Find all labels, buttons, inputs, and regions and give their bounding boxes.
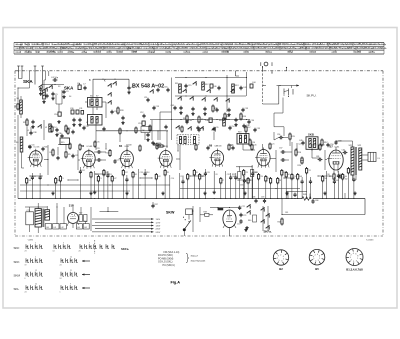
svg-text:C16: C16 xyxy=(164,87,167,89)
svg-text:~220V: ~220V xyxy=(27,239,34,241)
capacitor C66 xyxy=(311,199,318,204)
svg-text:C36: C36 xyxy=(58,133,61,135)
svg-text:R7: R7 xyxy=(227,116,229,118)
svg-text:7: 7 xyxy=(277,258,278,260)
mains plug dot xyxy=(183,220,191,236)
tube base B2 xyxy=(273,250,288,271)
wire xyxy=(160,111,172,113)
wire speaker xyxy=(345,175,356,181)
svg-text:C54: C54 xyxy=(251,120,254,122)
capacitor C41 xyxy=(217,86,220,90)
wire top xyxy=(93,79,129,80)
svg-text:SKM: SKM xyxy=(14,273,21,277)
label S3 xyxy=(58,86,60,88)
svg-text:110V: 110V xyxy=(156,219,161,221)
switch row 2 xyxy=(175,125,215,131)
coil S9 xyxy=(16,137,23,152)
wire xyxy=(243,144,263,150)
svg-text:UCH81: UCH81 xyxy=(87,146,93,148)
svg-text:C58: C58 xyxy=(252,197,255,199)
tube base B1 3 4 6 7 8 xyxy=(346,249,363,272)
svg-text:30Ω,ω7: 30Ω,ω7 xyxy=(191,255,199,257)
svg-text:C57: C57 xyxy=(279,148,282,150)
vertical feed xyxy=(246,72,248,96)
wire xyxy=(44,145,49,175)
wire xyxy=(85,102,106,118)
capacitor C2 xyxy=(43,94,49,98)
box oscillator xyxy=(141,127,150,133)
wire xyxy=(285,142,292,175)
svg-text:R45: R45 xyxy=(230,145,233,147)
wire rectifier top xyxy=(210,207,240,208)
wire grid output xyxy=(325,150,327,170)
svg-text:9: 9 xyxy=(70,284,71,286)
capacitor C1 xyxy=(127,79,134,94)
svg-text:R16: R16 xyxy=(298,152,301,154)
resistor R1 xyxy=(15,103,20,111)
svg-text:C38: C38 xyxy=(85,126,88,128)
coil L44 xyxy=(76,224,82,229)
switch detail row SKM xyxy=(14,270,91,280)
svg-text:C38: C38 xyxy=(33,132,36,134)
capacitor left of B4 xyxy=(113,159,119,163)
mains voltage label xyxy=(27,239,34,241)
label SK.P.U. xyxy=(307,94,317,98)
wire xyxy=(58,145,66,156)
svg-text:R6: R6 xyxy=(33,176,35,178)
trimmer row C30 xyxy=(70,108,84,114)
vertical feed xyxy=(226,75,228,112)
component field below tubes xyxy=(26,167,357,199)
label 31B xyxy=(69,203,74,207)
svg-text:C21: C21 xyxy=(349,170,352,172)
capacitor C3 xyxy=(62,90,68,94)
label K2 xyxy=(147,85,149,88)
svg-text:Fig.A: Fig.A xyxy=(171,280,181,284)
label S4 xyxy=(69,96,71,98)
switch row xyxy=(177,96,229,102)
svg-text:C35: C35 xyxy=(215,127,218,129)
resistor R11 xyxy=(157,143,165,147)
ground xyxy=(245,226,248,229)
svg-text:4: 4 xyxy=(317,254,318,256)
svg-text:7: 7 xyxy=(89,243,90,245)
tube B7 UABC80 xyxy=(209,149,223,168)
svg-text:C43: C43 xyxy=(243,87,246,89)
svg-text:C44: C44 xyxy=(252,82,255,84)
svg-text:3: 3 xyxy=(356,260,357,262)
resistor R47 xyxy=(79,213,82,222)
output transformer S21 S22 xyxy=(349,145,362,175)
mains transformer S26 primary xyxy=(35,209,44,227)
capacitor C52 xyxy=(229,145,235,150)
svg-text:1: 1 xyxy=(60,292,61,294)
schematic frame bottom xyxy=(15,235,383,237)
capacitor C7 xyxy=(83,84,87,91)
svg-text:C59: C59 xyxy=(261,197,264,199)
svg-text:R28: R28 xyxy=(329,176,332,178)
switch contact xyxy=(149,89,153,93)
svg-text:24: 24 xyxy=(60,278,62,280)
coil unit S6 S7 xyxy=(88,96,103,108)
svg-text:C13: C13 xyxy=(156,106,159,108)
aerial terminal A3 xyxy=(34,66,37,85)
capacitor C5 xyxy=(51,92,58,100)
svg-text:2: 2 xyxy=(280,254,281,256)
svg-text:19: 19 xyxy=(25,265,27,267)
svg-text:4: 4 xyxy=(35,257,36,259)
capacitor C49 xyxy=(299,140,305,145)
tube B9 UL84 output xyxy=(327,140,343,172)
coil L41 xyxy=(53,224,59,229)
wire drops xyxy=(310,193,345,199)
label B4 xyxy=(119,145,129,148)
svg-text:C56: C56 xyxy=(31,145,34,147)
schematic frame right xyxy=(382,71,384,236)
svg-text:R48: R48 xyxy=(299,176,302,178)
wire xyxy=(96,130,168,148)
resistor R28 xyxy=(329,173,345,181)
resistor R10 xyxy=(240,113,246,121)
wire AVC line 2 xyxy=(20,190,130,192)
capacitor C20 xyxy=(56,156,59,160)
label SKFa 2 xyxy=(121,247,129,251)
svg-text:R48: R48 xyxy=(128,145,131,147)
caps between tubes xyxy=(96,148,101,162)
capacitor C4 xyxy=(51,77,59,82)
wire B+ seg xyxy=(95,120,97,150)
svg-text:24: 24 xyxy=(25,292,27,294)
capacitor C71 xyxy=(26,207,34,232)
wire xyxy=(291,86,293,89)
svg-text:C64: C64 xyxy=(254,172,257,174)
svg-text:R4: R4 xyxy=(287,174,289,176)
junction row xyxy=(180,119,229,120)
node B xyxy=(89,79,93,98)
coil L42 xyxy=(60,224,66,229)
resistor left of B4 xyxy=(106,149,112,157)
svg-text:C46: C46 xyxy=(253,145,256,147)
svg-text:C15: C15 xyxy=(188,85,191,87)
svg-text:L44: L44 xyxy=(77,227,80,229)
svg-text:C54: C54 xyxy=(231,126,234,128)
svg-text:C61: C61 xyxy=(316,156,319,158)
svg-text:5: 5 xyxy=(353,261,354,263)
wire links upper xyxy=(44,131,246,142)
svg-text:9: 9 xyxy=(350,257,351,259)
IF can box xyxy=(60,138,70,145)
svg-text:C53: C53 xyxy=(245,108,248,110)
header table rules xyxy=(14,42,384,54)
svg-text:4: 4 xyxy=(283,256,284,258)
wire corner at frame xyxy=(236,71,240,76)
wire xyxy=(56,90,62,112)
switch SKA contact b xyxy=(107,81,116,87)
svg-text:C25: C25 xyxy=(245,172,248,174)
wire AF line xyxy=(180,188,300,189)
svg-text:S19: S19 xyxy=(238,132,241,134)
wire bottom left links xyxy=(56,203,91,231)
capacitor C43 xyxy=(239,86,246,90)
svg-text:C157: C157 xyxy=(237,224,241,226)
svg-text:24: 24 xyxy=(60,265,62,267)
schematic frame left xyxy=(14,71,16,236)
svg-text:S15: S15 xyxy=(61,142,64,144)
divider xyxy=(94,240,96,254)
tube base B5 xyxy=(309,249,325,270)
capacitor C33 xyxy=(72,118,75,127)
svg-text:C21: C21 xyxy=(271,144,274,146)
gramophone terminal xyxy=(261,62,272,71)
svg-text:3: 3 xyxy=(63,243,64,245)
svg-text:C31: C31 xyxy=(227,174,230,176)
svg-text:C66: C66 xyxy=(315,200,318,202)
capacitor C72 xyxy=(238,206,245,210)
voltage selector lines xyxy=(92,218,161,234)
wire xyxy=(192,206,193,232)
svg-text:R24: R24 xyxy=(321,145,324,147)
switch contact xyxy=(37,124,41,128)
switch contact xyxy=(43,85,52,92)
capacitor C11 xyxy=(144,97,150,102)
svg-text:1: 1 xyxy=(357,258,358,260)
coil L2 xyxy=(45,124,51,132)
svg-text:SKF: SKF xyxy=(14,246,20,250)
svg-text:C64: C64 xyxy=(344,176,347,178)
switch SKFa contacts xyxy=(260,206,269,231)
switch SKA contact a xyxy=(38,84,47,88)
mid-band components xyxy=(28,141,324,152)
svg-text:C11: C11 xyxy=(144,97,147,99)
label SKFa xyxy=(264,229,272,233)
wire xyxy=(263,86,279,105)
wire xyxy=(47,84,64,85)
resistor R17 xyxy=(321,139,328,147)
label B6 xyxy=(209,144,222,147)
svg-text:C55: C55 xyxy=(257,128,260,130)
wire AVC line xyxy=(20,184,170,185)
svg-text:C56: C56 xyxy=(277,134,280,136)
capacitor C34 xyxy=(78,118,81,127)
wire xyxy=(145,112,160,140)
capacitor near R37 xyxy=(151,202,157,208)
coil S13 xyxy=(232,84,239,93)
svg-text:B2: B2 xyxy=(279,267,283,271)
switch SKW box xyxy=(183,209,192,222)
wire transformer top xyxy=(25,203,47,233)
svg-text:B7: B7 xyxy=(330,144,334,148)
label B3 xyxy=(81,145,92,148)
wire xyxy=(22,152,25,168)
svg-text:R8: R8 xyxy=(195,172,197,174)
svg-text:S3: S3 xyxy=(58,86,60,88)
svg-text:S13: S13 xyxy=(235,85,238,87)
svg-text:SKL: SKL xyxy=(14,287,20,291)
svg-text:L2: L2 xyxy=(45,127,47,129)
svg-text:C53: C53 xyxy=(240,185,243,187)
wire bus xyxy=(175,77,247,78)
ground xyxy=(244,228,247,231)
svg-text:C23: C23 xyxy=(96,148,99,150)
svg-text:R33: R33 xyxy=(120,110,123,112)
svg-text:SKB: SKB xyxy=(308,133,314,137)
svg-text:C24: C24 xyxy=(298,144,301,146)
capacitor C55 xyxy=(253,128,260,132)
svg-text:SKW: SKW xyxy=(166,210,175,214)
coil box SKB xyxy=(306,137,318,150)
program list xyxy=(158,251,206,267)
svg-text:R24: R24 xyxy=(249,180,252,182)
capacitor C16 xyxy=(164,87,170,93)
svg-text:C69: C69 xyxy=(206,172,209,174)
resistor R38 xyxy=(200,207,213,222)
svg-text:145V: 145V xyxy=(156,225,161,227)
svg-text:R31: R31 xyxy=(81,170,84,172)
loudspeaker xyxy=(362,152,381,161)
resistor R43 xyxy=(278,199,284,226)
wire det jog xyxy=(236,166,253,167)
tube B10 rectifier UY85 xyxy=(223,210,236,236)
capacitor C56 up xyxy=(277,134,288,139)
capacitor C21 xyxy=(71,154,78,158)
resistor R8 xyxy=(183,115,188,123)
ground xyxy=(62,95,65,98)
capacitor C47 xyxy=(234,118,237,127)
svg-text:SKFa.: SKFa. xyxy=(264,229,272,233)
ground row xyxy=(179,111,230,116)
capacitor C24 xyxy=(146,133,149,142)
svg-text:5: 5 xyxy=(279,260,280,262)
dashed IF box 2 xyxy=(191,135,200,145)
svg-text:L42: L42 xyxy=(61,227,64,229)
switch detail extra SKF xyxy=(100,244,115,248)
svg-text:9: 9 xyxy=(313,256,314,258)
svg-text:5: 5 xyxy=(35,243,36,245)
capacitor C45 xyxy=(185,120,192,124)
caps near tube B8 xyxy=(279,148,285,162)
capacitor stack xyxy=(237,213,246,226)
svg-text:3: 3 xyxy=(318,260,319,262)
svg-text:R8: R8 xyxy=(279,180,281,182)
svg-text:1: 1 xyxy=(283,258,284,260)
svg-text:6: 6 xyxy=(25,278,26,280)
coil S12 xyxy=(202,82,209,90)
svg-text:SK.P.U.: SK.P.U. xyxy=(307,94,317,98)
svg-text:C20: C20 xyxy=(260,176,263,178)
trimmer C10 xyxy=(54,112,61,116)
junction dots xyxy=(175,95,246,96)
coil S14 xyxy=(219,118,225,126)
resistor R4 xyxy=(50,149,55,157)
resistor R45 zigzag xyxy=(302,194,311,200)
wire pickup down xyxy=(274,98,284,137)
svg-text:C46: C46 xyxy=(205,120,208,122)
capacitor C17 xyxy=(55,128,58,137)
switch contacts b xyxy=(246,204,250,214)
svg-text:C31: C31 xyxy=(79,108,82,110)
svg-text:R6: R6 xyxy=(215,108,217,110)
svg-text:C68: C68 xyxy=(28,180,31,182)
label B7 UL84 xyxy=(330,144,341,148)
svg-text:C12: C12 xyxy=(140,112,143,114)
resistor R2 xyxy=(23,119,28,127)
switch SKA label xyxy=(23,79,33,84)
trimmer C40 xyxy=(210,84,216,88)
coil S11 xyxy=(175,83,181,93)
svg-text:R5: R5 xyxy=(68,154,70,156)
header column ticks xyxy=(14,42,384,54)
svg-text:20: 20 xyxy=(79,251,81,253)
wire xyxy=(312,149,320,158)
svg-text:R19: R19 xyxy=(292,136,295,138)
coil L40 xyxy=(45,224,51,229)
schematic frame top xyxy=(15,70,383,72)
capacitor C9 xyxy=(31,120,34,129)
svg-text:C10: C10 xyxy=(54,114,57,116)
svg-text:B10: B10 xyxy=(227,217,230,219)
svg-text:245V: 245V xyxy=(156,232,161,234)
svg-text:C5: C5 xyxy=(99,178,101,180)
svg-text:C72: C72 xyxy=(242,206,245,208)
label SKB xyxy=(308,133,314,137)
svg-text:C21: C21 xyxy=(308,170,311,172)
svg-text:C30: C30 xyxy=(70,108,73,110)
resistor R16 xyxy=(295,149,301,157)
resistor R14 xyxy=(249,139,255,147)
svg-text:23: 23 xyxy=(25,251,27,253)
IF can above tube6 xyxy=(237,132,249,145)
svg-text:C73: C73 xyxy=(243,215,246,217)
svg-text:C61: C61 xyxy=(285,212,288,214)
mains transformer secondary xyxy=(45,210,50,220)
svg-text:C57: C57 xyxy=(53,127,56,129)
vertical feed xyxy=(171,78,173,141)
svg-text:C62: C62 xyxy=(342,150,345,152)
svg-text:7: 7 xyxy=(351,260,352,262)
wire gram drop xyxy=(262,66,266,104)
svg-text:C4 10p: C4 10p xyxy=(51,77,59,79)
svg-text:6: 6 xyxy=(319,256,320,258)
switch contact xyxy=(192,81,196,85)
chassis bus xyxy=(18,198,365,200)
svg-text:2: 2 xyxy=(351,255,352,257)
capacitor row xyxy=(179,106,230,112)
title BX 543 A-02 xyxy=(132,84,164,90)
capacitor C48 xyxy=(242,124,249,128)
svg-text:R45: R45 xyxy=(303,194,306,196)
selector top line xyxy=(100,207,119,212)
svg-text:C14: C14 xyxy=(154,85,157,87)
svg-text:R17: R17 xyxy=(324,142,327,144)
svg-text:UF89: UF89 xyxy=(125,146,129,148)
svg-text:3: 3 xyxy=(281,260,282,262)
svg-text:C19: C19 xyxy=(201,128,204,130)
svg-text:C8: C8 xyxy=(215,174,217,176)
label L1 xyxy=(27,130,30,132)
tube B4 UF89 xyxy=(81,149,95,169)
svg-text:R12: R12 xyxy=(106,153,109,155)
svg-text:SKA: SKA xyxy=(64,85,74,90)
aerial terminal A2 xyxy=(19,66,24,79)
svg-text:C35: C35 xyxy=(96,142,99,144)
switch detail row SKK xyxy=(14,257,91,267)
wire xyxy=(94,152,106,160)
upper-band components xyxy=(51,125,251,135)
capacitor C54 xyxy=(247,120,254,124)
svg-text:C42: C42 xyxy=(171,105,174,107)
svg-text:12: 12 xyxy=(70,257,72,259)
svg-text:B5: B5 xyxy=(315,267,319,271)
